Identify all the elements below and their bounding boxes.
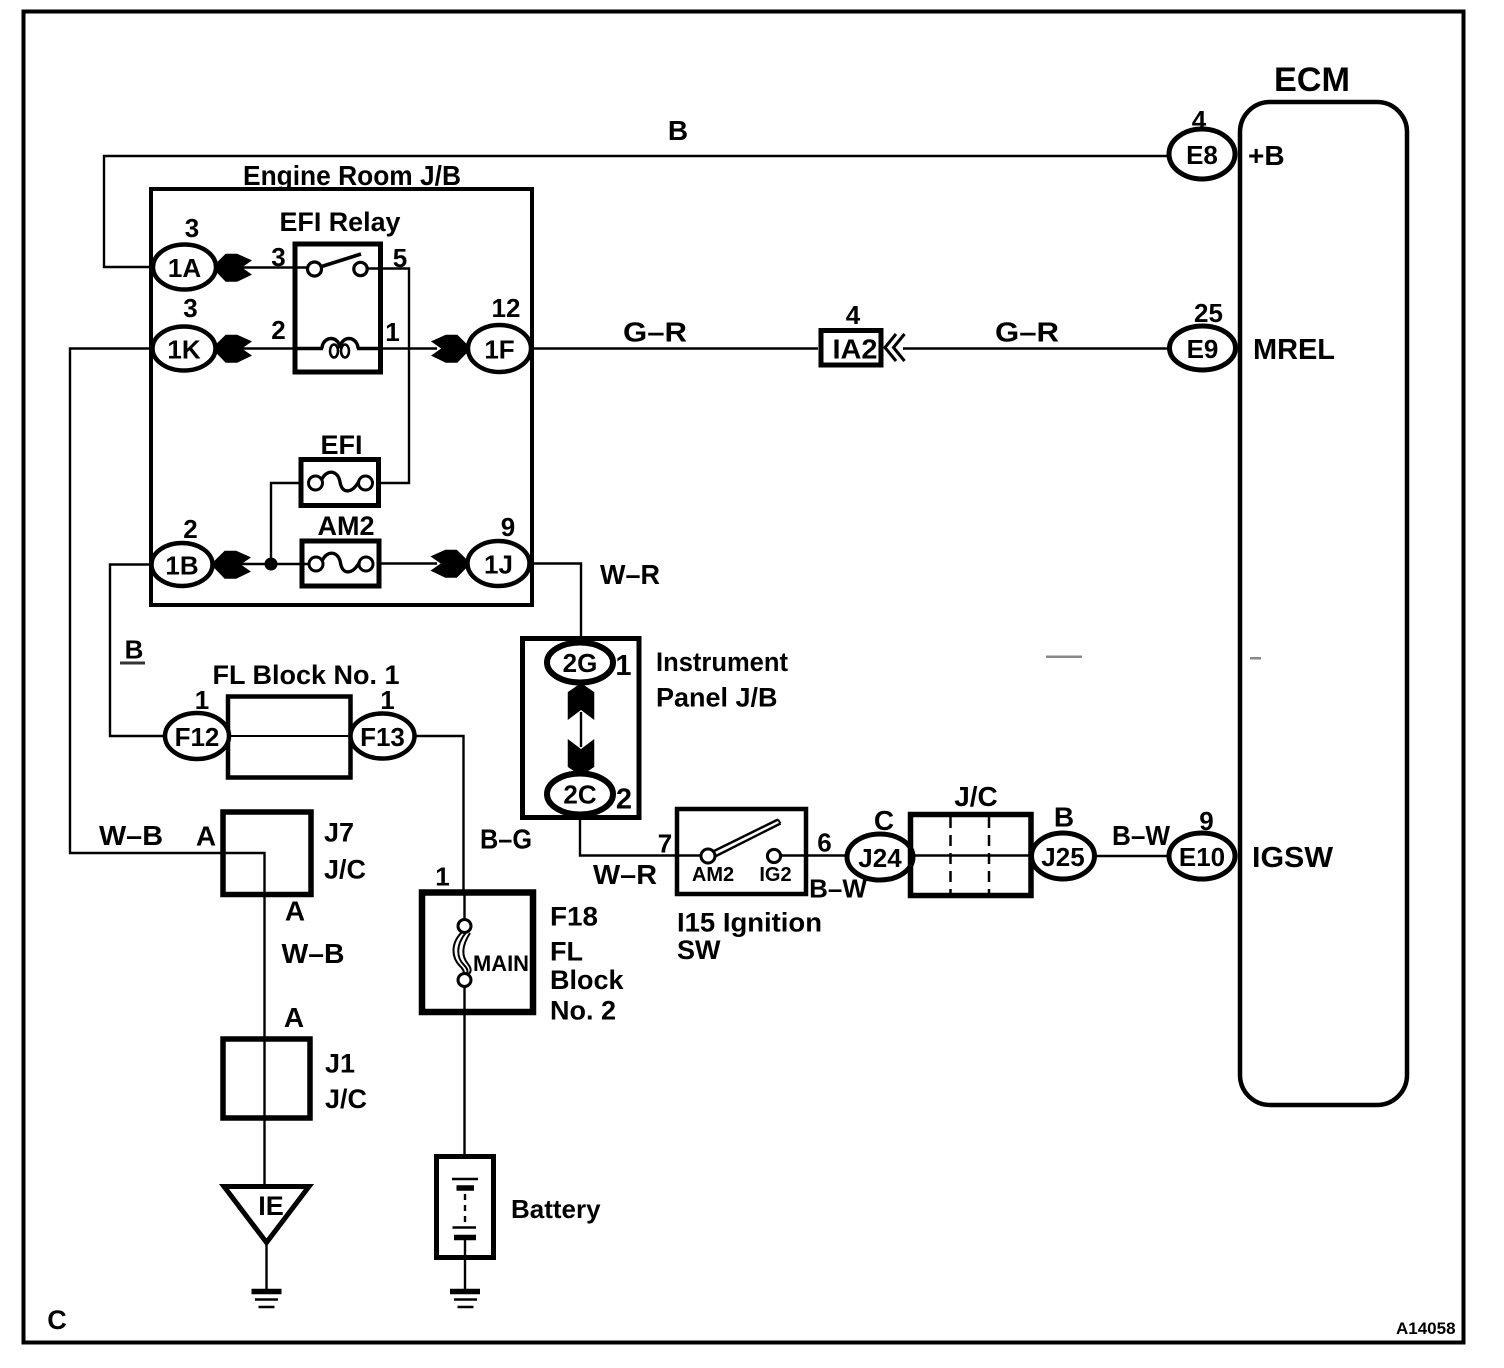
connector E10 pin 9 xyxy=(1169,806,1334,879)
svg-text:SW: SW xyxy=(677,935,721,965)
junction dot xyxy=(265,558,278,571)
svg-text:7: 7 xyxy=(658,829,672,859)
FL Block No.2 box xyxy=(422,893,533,1013)
connector oval 1A pin 3 xyxy=(153,213,216,290)
connector oval 1K pin 3 xyxy=(153,293,216,371)
svg-text:4: 4 xyxy=(846,300,861,330)
relay coil xyxy=(297,339,380,358)
ECM module box xyxy=(1240,102,1407,1105)
Engine Room J/B box xyxy=(151,189,532,605)
svg-text:IGSW: IGSW xyxy=(1252,842,1334,874)
wire relay pin 1 to 1F xyxy=(380,347,437,349)
ignition switch I15 box xyxy=(677,809,806,894)
svg-text:E8: E8 xyxy=(1186,140,1218,170)
EFI fuse box xyxy=(301,460,379,506)
svg-text:3: 3 xyxy=(185,213,199,243)
svg-text:B–W: B–W xyxy=(809,874,867,904)
wire W-B (through J7 down to J1 and IE) xyxy=(224,853,265,1186)
connector oval F12 pin 1 xyxy=(165,685,229,759)
svg-text:1A: 1A xyxy=(168,253,201,283)
svg-text:2: 2 xyxy=(271,315,285,345)
svg-text:9: 9 xyxy=(501,512,515,542)
svg-text:J/C: J/C xyxy=(954,781,998,812)
EFI relay box xyxy=(295,244,381,372)
svg-text:5: 5 xyxy=(393,243,407,273)
svg-text:1J: 1J xyxy=(484,550,513,580)
svg-text:W–R: W–R xyxy=(600,559,660,590)
connector oval J25 terminal B xyxy=(1032,802,1095,880)
svg-text:C: C xyxy=(47,1305,67,1335)
wire B (1B to F12) xyxy=(110,565,166,737)
wire W-R (2C to ignition switch) xyxy=(580,815,678,856)
svg-text:ECM: ECM xyxy=(1274,61,1350,99)
svg-text:J/C: J/C xyxy=(325,1084,367,1114)
svg-text:1K: 1K xyxy=(167,335,200,365)
junction connector J1 box xyxy=(223,1039,310,1118)
svg-text:G–R: G–R xyxy=(995,317,1059,348)
svg-text:C: C xyxy=(874,805,894,836)
svg-text:6: 6 xyxy=(817,828,831,858)
svg-text:FL: FL xyxy=(550,937,583,967)
wire AM2 fuse to 1J xyxy=(379,562,437,564)
svg-text:Battery: Battery xyxy=(511,1194,601,1224)
svg-text:IG2: IG2 xyxy=(759,864,791,886)
svg-text:I15 Ignition: I15 Ignition xyxy=(677,908,822,938)
svg-text:J24: J24 xyxy=(858,843,902,873)
svg-text:B–G: B–G xyxy=(480,824,532,855)
wire IE to ground xyxy=(265,1242,267,1289)
AM2 fuse element xyxy=(309,553,373,572)
ground at battery xyxy=(450,1292,480,1308)
svg-text:+B: +B xyxy=(1248,140,1285,171)
harness arrow at 1J xyxy=(432,551,467,578)
svg-text:9: 9 xyxy=(1199,806,1213,836)
relay switch blade xyxy=(320,254,361,267)
AM2 fuse box xyxy=(302,541,379,586)
ignition switch terminal IG2 xyxy=(767,849,806,862)
ground connector IE triangle xyxy=(224,1187,309,1243)
svg-text:MREL: MREL xyxy=(1253,334,1335,366)
wire G-R (1F to IA2) xyxy=(531,347,818,349)
svg-text:E10: E10 xyxy=(1179,842,1225,872)
ignition switch terminal AM2 xyxy=(678,849,715,863)
relay switch contact pin 5 xyxy=(354,262,367,275)
connector oval 1J pin 9 xyxy=(468,512,530,586)
battery xyxy=(437,1157,494,1290)
arrow up inside Instrument Panel J/B xyxy=(569,684,594,719)
svg-text:1: 1 xyxy=(380,685,394,715)
wire B (battery feed from 1A to ECM +B E8) xyxy=(104,156,1169,267)
svg-text:A: A xyxy=(284,1002,304,1033)
svg-text:1: 1 xyxy=(435,862,449,892)
harness arrow at 1F xyxy=(433,336,468,363)
J1 J/C label xyxy=(325,1049,367,1115)
relay switch contact pin 3 xyxy=(308,262,322,276)
svg-text:F12: F12 xyxy=(175,722,220,752)
svg-text:J7: J7 xyxy=(324,818,354,848)
svg-text:B–W: B–W xyxy=(1112,820,1171,851)
svg-text:25: 25 xyxy=(1194,298,1223,328)
wire EFI fuse to junction xyxy=(271,483,301,558)
svg-text:IE: IE xyxy=(258,1191,284,1221)
svg-text:FL Block No. 1: FL Block No. 1 xyxy=(212,660,399,690)
svg-text:E9: E9 xyxy=(1187,334,1219,364)
svg-text:1: 1 xyxy=(615,650,631,682)
svg-text:AM2: AM2 xyxy=(317,511,374,541)
svg-text:EFI: EFI xyxy=(320,430,362,460)
wire relay pin 2 to 1K xyxy=(240,347,296,349)
connector oval J24 terminal C xyxy=(847,805,913,880)
svg-text:Panel J/B: Panel J/B xyxy=(656,683,778,713)
wire through J/C xyxy=(910,854,1033,856)
ignition switch blade xyxy=(713,820,781,857)
connector oval F13 pin 1 xyxy=(351,685,415,759)
wire ignition switch to J24 xyxy=(806,854,848,856)
svg-text:1F: 1F xyxy=(484,335,514,365)
connector IA2 box pin 4 xyxy=(821,300,881,365)
svg-text:1: 1 xyxy=(385,317,399,347)
wire B-G (F13 to FL Block No.2) xyxy=(414,736,464,893)
ground at IE xyxy=(252,1292,282,1308)
FL Block No.1 box xyxy=(228,697,351,778)
svg-text:A14058: A14058 xyxy=(1396,1319,1456,1338)
wire W-B (1K to J7 junction) xyxy=(70,349,224,854)
wire through FL block No.1 xyxy=(229,735,350,737)
svg-text:A: A xyxy=(196,821,216,852)
svg-text:MAIN: MAIN xyxy=(473,951,529,976)
svg-text:A: A xyxy=(285,896,305,927)
svg-text:J1: J1 xyxy=(325,1049,355,1079)
svg-text:2: 2 xyxy=(616,784,632,816)
svg-text:2G: 2G xyxy=(563,648,598,678)
svg-text:Engine Room J/B: Engine Room J/B xyxy=(243,160,461,191)
connector oval 2G pin 1 xyxy=(547,643,632,683)
svg-text:1B: 1B xyxy=(165,551,198,581)
svg-text:W–R: W–R xyxy=(593,859,657,890)
svg-text:2C: 2C xyxy=(563,780,596,810)
svg-text:B: B xyxy=(668,115,688,146)
wire 1A to relay pin 3 xyxy=(240,266,308,268)
svg-text:1: 1 xyxy=(195,685,209,715)
Instrument Panel J/B box xyxy=(523,639,640,818)
svg-text:J/C: J/C xyxy=(324,855,366,885)
wire 1B to AM2 fuse xyxy=(239,563,310,565)
svg-text:B: B xyxy=(1054,802,1074,833)
svg-text:F18: F18 xyxy=(550,902,598,932)
connector oval 2C pin 2 xyxy=(547,774,632,816)
svg-text:3: 3 xyxy=(183,293,197,323)
svg-text:J25: J25 xyxy=(1041,842,1084,872)
wire between arrows xyxy=(580,712,582,747)
junction connector J7 box xyxy=(223,812,311,895)
svg-text:3: 3 xyxy=(271,242,285,272)
connector E8 pin 4 xyxy=(1169,105,1285,179)
svg-text:F13: F13 xyxy=(360,722,405,752)
svg-text:G–R: G–R xyxy=(623,317,687,348)
svg-text:AM2: AM2 xyxy=(692,864,734,886)
connector oval 1F pin 12 xyxy=(468,293,531,372)
svg-text:No. 2: No. 2 xyxy=(550,996,616,1026)
svg-text:2: 2 xyxy=(183,514,197,544)
harness arrow at 1A xyxy=(216,255,251,282)
wire relay pin 5 to EFI fuse xyxy=(367,269,409,484)
harness arrow at 1B xyxy=(215,552,250,579)
I15 Ignition SW label xyxy=(677,908,822,966)
F18 FL Block No.2 label xyxy=(550,902,625,1026)
connector E9 pin 25 xyxy=(1170,298,1336,370)
svg-text:4: 4 xyxy=(1192,105,1207,135)
connector oval 1B pin 2 xyxy=(152,514,213,586)
svg-text:IA2: IA2 xyxy=(833,334,878,365)
Instrument Panel J/B label xyxy=(656,647,788,713)
wire W-R (1J to Instrument Panel J/B) xyxy=(529,564,581,646)
arrow down inside Instrument Panel J/B xyxy=(569,741,594,776)
svg-text:12: 12 xyxy=(492,293,521,323)
harness arrows at IA2 xyxy=(885,334,905,361)
J7 J/C label xyxy=(324,818,366,885)
junction connector J/C box xyxy=(911,815,1032,896)
harness arrow at 1K xyxy=(216,336,251,363)
EFI fuse element xyxy=(309,472,373,491)
svg-text:Block: Block xyxy=(550,965,625,995)
svg-text:W–B: W–B xyxy=(99,820,163,851)
wire J25 to E10 xyxy=(1095,855,1170,857)
svg-text:B: B xyxy=(125,635,144,665)
svg-text:W–B: W–B xyxy=(282,938,345,969)
svg-text:EFI Relay: EFI Relay xyxy=(280,207,401,237)
svg-text:Instrument: Instrument xyxy=(656,647,788,677)
wire G-R (IA2 to E9) xyxy=(903,347,1170,349)
fusible link MAIN xyxy=(454,893,472,1156)
